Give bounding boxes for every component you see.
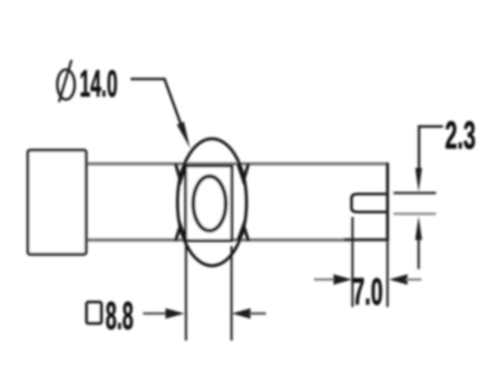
- tangent mark bottom-right: [238, 226, 249, 242]
- 8.8 right arrowhead: [232, 308, 251, 319]
- tangent mark top-left: [176, 164, 187, 181]
- wire bar bottom right dark segment: [344, 238, 387, 241]
- leader line for diameter label: [131, 79, 184, 130]
- wire bar top edge: [86, 162, 388, 165]
- extension line bar right end: [386, 241, 388, 307]
- 7.0 left arrow stem: [314, 278, 335, 280]
- extension line square right: [230, 246, 232, 341]
- 8.8 left arrow stem: [143, 312, 167, 314]
- 7.0 right arrowhead: [389, 274, 408, 284]
- leader for 2.3: [419, 127, 443, 173]
- up arrow of 2.3: [415, 216, 422, 240]
- extension line slot left: [351, 217, 353, 307]
- 7.0 left arrowhead: [334, 274, 353, 284]
- boss circle O14: [178, 139, 247, 266]
- tangent mark bottom-left: [176, 226, 187, 242]
- svg-text:2.3: 2.3: [445, 113, 476, 157]
- left end block: [28, 150, 86, 254]
- diameter symbol: [57, 70, 74, 100]
- tangent mark top-right: [238, 164, 249, 181]
- extension line square left: [185, 246, 187, 341]
- slot bottom extension line: [394, 213, 437, 216]
- leader arrowhead: [177, 122, 190, 148]
- inner hole circle: [193, 176, 226, 230]
- 8.8 left arrowhead: [166, 308, 185, 319]
- square drive pocket: [186, 166, 232, 241]
- 8.8 right arrow stem: [250, 312, 267, 314]
- slot top extension line: [394, 192, 437, 195]
- wire bar bottom edge: [86, 238, 388, 241]
- down arrow of 2.3: [415, 168, 422, 192]
- svg-text:14.0: 14.0: [80, 64, 118, 105]
- svg-text:8.8: 8.8: [106, 294, 134, 338]
- square symbol: [87, 302, 102, 324]
- slot outline: [352, 194, 389, 212]
- 7.0 right arrow stem: [406, 278, 422, 280]
- up arrow stem: [418, 239, 420, 269]
- svg-text:7.0: 7.0: [353, 270, 383, 313]
- bar right end edge: [386, 163, 389, 242]
